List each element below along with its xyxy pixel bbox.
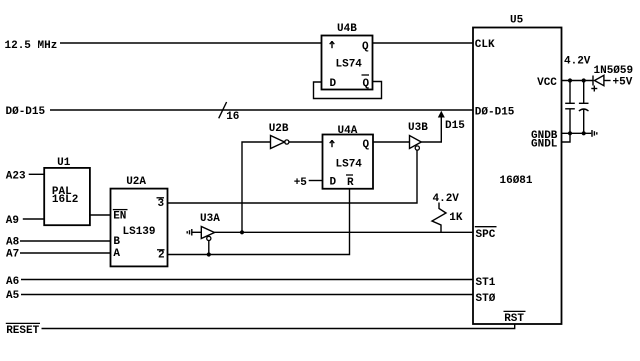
svg-text:U1: U1 bbox=[57, 157, 71, 169]
inverter U2B bbox=[269, 123, 289, 149]
svg-text:LS74: LS74 bbox=[336, 158, 363, 170]
svg-text:D: D bbox=[330, 78, 337, 90]
svg-text:EN: EN bbox=[113, 210, 126, 222]
svg-text:U3A: U3A bbox=[200, 213, 220, 225]
svg-text:D15: D15 bbox=[445, 120, 465, 132]
wire A8 to U2A pin B bbox=[20, 240, 111, 242]
svg-text:DØ-D15: DØ-D15 bbox=[475, 107, 515, 119]
svg-text:LS139: LS139 bbox=[123, 226, 156, 238]
wire U5 GNDB to ground bbox=[562, 132, 592, 134]
junction SPC to U2B bbox=[240, 230, 244, 234]
junction U3A enable bbox=[207, 252, 211, 256]
svg-text:VCC: VCC bbox=[537, 77, 557, 89]
svg-text:3: 3 bbox=[158, 198, 165, 210]
wire U2B out to U4A clock bbox=[289, 141, 323, 143]
junction GNDB cap2 bbox=[582, 131, 586, 135]
wire U3B out to bus with arrow bbox=[421, 111, 445, 142]
junction VCC cap2 bbox=[582, 78, 586, 82]
svg-text:R: R bbox=[347, 177, 354, 189]
svg-text:A8: A8 bbox=[6, 237, 20, 249]
wire U4B Q to U5 CLK bbox=[373, 42, 474, 44]
flip-flop U4B bbox=[322, 23, 373, 90]
PAL U1 bbox=[44, 157, 90, 225]
svg-text:U3B: U3B bbox=[408, 122, 428, 134]
svg-text:1N5Ø59: 1N5Ø59 bbox=[594, 65, 634, 77]
svg-text:U2A: U2A bbox=[126, 176, 146, 188]
wire U2A pin2 to U4A R bbox=[168, 189, 350, 255]
wire U5 VCC to diode bbox=[562, 80, 593, 82]
tri-state buffer U3A bbox=[200, 213, 220, 240]
svg-text:D: D bbox=[330, 177, 337, 189]
svg-text:A9: A9 bbox=[6, 215, 19, 227]
svg-text:Q: Q bbox=[362, 41, 369, 53]
svg-text:GNDL: GNDL bbox=[531, 139, 558, 151]
wire U1 out to U2A EN bbox=[90, 214, 111, 216]
svg-text:4.2V: 4.2V bbox=[564, 56, 591, 68]
svg-text:B: B bbox=[113, 236, 120, 248]
U4B clock arrow bbox=[330, 41, 335, 48]
svg-text:U4A: U4A bbox=[338, 125, 358, 137]
svg-text:+5: +5 bbox=[294, 177, 308, 189]
svg-text:A: A bbox=[113, 248, 120, 260]
capacitor C1 bbox=[565, 81, 575, 134]
resistor R 1K bbox=[432, 193, 463, 232]
svg-text:Q: Q bbox=[363, 78, 370, 90]
svg-text:+5V: +5V bbox=[613, 76, 633, 88]
svg-text:2: 2 bbox=[158, 250, 165, 262]
svg-text:4.2V: 4.2V bbox=[433, 193, 460, 205]
svg-text:A23: A23 bbox=[6, 170, 26, 182]
svg-text:DØ-D15: DØ-D15 bbox=[6, 106, 46, 118]
svg-text:U4B: U4B bbox=[337, 23, 357, 35]
svg-text:16L2: 16L2 bbox=[52, 194, 78, 206]
svg-text:ST1: ST1 bbox=[476, 277, 496, 289]
wire D0-D15 bus bbox=[50, 109, 473, 111]
svg-text:RESET: RESET bbox=[6, 325, 39, 337]
svg-text:16: 16 bbox=[226, 111, 239, 123]
svg-text:RST: RST bbox=[504, 313, 524, 325]
ground at GNDB bbox=[592, 130, 597, 137]
wire U3A out to U5 SPC bbox=[215, 231, 474, 233]
wire U5 GNDL joins GNDB bbox=[562, 133, 571, 142]
tri-state buffer U3B bbox=[408, 122, 428, 150]
CPU U5 bbox=[473, 15, 562, 325]
net label RESET bbox=[6, 323, 40, 337]
svg-text:12.5 MHz: 12.5 MHz bbox=[5, 40, 58, 52]
bus width slash bbox=[219, 102, 227, 118]
svg-text:U5: U5 bbox=[510, 15, 524, 27]
svg-text:Q: Q bbox=[363, 139, 370, 151]
wire A5 to U5 ST0 bbox=[21, 294, 473, 296]
flip-flop U4A bbox=[323, 125, 374, 189]
U4A clock arrow bbox=[330, 140, 335, 147]
svg-text:A5: A5 bbox=[6, 290, 20, 302]
wire A7 to U2A pin A bbox=[20, 252, 111, 254]
plus mark for C2 bbox=[591, 86, 597, 92]
svg-text:STØ: STØ bbox=[476, 293, 496, 305]
wire U4B Qbar feedback to D bbox=[314, 82, 382, 99]
junction VCC cap1 bbox=[568, 78, 572, 82]
wire SPC net up to U2B input bbox=[242, 142, 271, 232]
diode 1N5059 bbox=[593, 65, 633, 86]
wire +5 to U4A D bbox=[309, 180, 323, 182]
junction GNDB cap1 bbox=[568, 131, 572, 135]
svg-text:LS74: LS74 bbox=[336, 59, 363, 71]
ground at U3A input bbox=[187, 229, 201, 236]
svg-text:16Ø81: 16Ø81 bbox=[500, 175, 533, 187]
svg-text:A7: A7 bbox=[6, 248, 19, 260]
wire A23 to U1 bbox=[29, 173, 45, 175]
svg-text:SPC: SPC bbox=[476, 229, 496, 241]
decoder U2A bbox=[111, 176, 168, 266]
wire U4A Q to U3B bbox=[373, 141, 410, 143]
svg-text:CLK: CLK bbox=[475, 39, 495, 51]
svg-text:A6: A6 bbox=[6, 276, 19, 288]
wire 12.5MHz to U4B clock bbox=[60, 42, 322, 44]
wire A6 to U5 ST1 bbox=[21, 279, 473, 281]
capacitor C2 polarized bbox=[579, 81, 589, 134]
wire U3A enable to pin2 net bbox=[208, 240, 210, 254]
wire A9 to U1 bbox=[23, 218, 44, 220]
svg-text:1K: 1K bbox=[449, 212, 463, 224]
wire U2A pin3 to U3B enable bbox=[168, 150, 418, 203]
svg-text:U2B: U2B bbox=[269, 123, 289, 135]
wire RESET to U5 RST bbox=[42, 324, 515, 329]
